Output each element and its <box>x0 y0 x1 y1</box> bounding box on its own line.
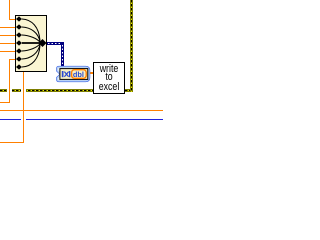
input terminal 3 <box>16 32 22 37</box>
wire: orange stub from Express VI output to write-to-excel input <box>90 72 93 74</box>
wire: orange input 3 of Build Array, row 35 <box>0 35 15 36</box>
input terminal 5 <box>16 48 22 53</box>
label line 3: excel <box>97 82 121 92</box>
svg-text:dbl: dbl <box>73 70 84 79</box>
junction gap: orange wire crossing blue wire at x=23 <box>21 119 26 120</box>
wire: error cluster wire, vertical run cols 130-132 up to top edge <box>0 0 163 1</box>
input terminal 4 <box>16 40 22 45</box>
fan-in curve from input 5 <box>22 44 40 51</box>
junction gap: orange wire crossing error wire at x=9 <box>7 89 12 92</box>
wire: orange input 2 of Build Array, row 27 <box>0 27 15 28</box>
wire: orange wire from under Build Array (down col 23, out left at row 142) <box>0 0 163 1</box>
wire: blue scalar wire across full width, row 119 <box>0 119 163 120</box>
wire: orange input 4 of Build Array, row 43 <box>0 43 15 44</box>
wire: dynamic-data wire, vertical run cols 61-63 down into Express VI <box>0 0 163 1</box>
wire: error cluster wire, horizontal run rows 89-91 from left edge to write-to-excel node <box>0 0 163 1</box>
wire: long orange scalar wire across full width, row 110 <box>0 110 163 111</box>
junction gap: orange wire crossing error wire at x=23 <box>21 89 26 92</box>
input terminal 1 <box>16 16 22 21</box>
fan-in curve from input 1 <box>22 19 40 41</box>
Build Array body <box>16 16 47 72</box>
label line 2: to <box>97 72 121 82</box>
fan-in curve from input 2 <box>22 27 40 42</box>
label line 1: write <box>97 64 121 74</box>
Express VI outer rounded border with left input notch <box>57 67 90 82</box>
Express VI icon box <box>60 69 88 80</box>
Express VI inner light-blue highlight <box>58 67 89 80</box>
fan-in curve from input 6 <box>22 45 40 60</box>
fan-in line from input 4 <box>22 42 40 44</box>
node: Convert from Dynamic Data Express VI <box>54 64 94 84</box>
wire: orange input 1 of Build Array (vertical col 9 from top, elbow to row 19) <box>0 0 163 1</box>
dynamic data type glyph ]x[ <box>62 71 71 77</box>
wire: error cluster wire, stub from right side of write-to-excel node to corner <box>0 0 163 1</box>
node: Build Array function <box>15 15 47 72</box>
fan-in curve from input 3 <box>22 35 40 42</box>
input terminal 2 <box>16 24 22 29</box>
input terminal 7 <box>16 64 22 69</box>
node: write to excel subVI <box>93 62 125 94</box>
fan-in curve from input 7 <box>22 46 40 68</box>
wire: orange input 6 of Build Array (stub row 59, down col 9, out left at row 102) <box>0 0 163 1</box>
input terminal 6 <box>16 56 22 61</box>
[dbl] array-of-double badge <box>72 70 87 79</box>
output terminal (appended array) <box>39 39 47 47</box>
wire: orange input 5 of Build Array, row 51 <box>0 51 15 52</box>
wire: dynamic-data wire, horizontal run rows 42-44 from Build Array output <box>0 0 163 1</box>
